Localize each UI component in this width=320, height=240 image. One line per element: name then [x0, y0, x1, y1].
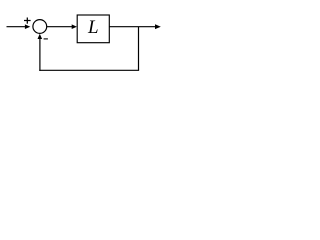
output arrowhead	[155, 24, 161, 29]
wire: input line into summing junction	[7, 26, 26, 28]
plus sign label	[24, 18, 31, 24]
svg-text:L: L	[87, 17, 99, 38]
wire: feedback bottom horizontal	[39, 69, 139, 71]
arrowhead up into summing junction bottom	[38, 34, 43, 39]
minus sign label	[44, 38, 48, 40]
wire: takeoff vertical down	[138, 27, 140, 71]
wire: feedback left vertical up to summing junction	[39, 39, 41, 71]
wire: block L to output arrow	[109, 26, 155, 28]
background	[0, 0, 178, 87]
arrowhead into summing junction	[25, 24, 30, 29]
summing junction circle	[33, 20, 47, 34]
block L rectangle	[77, 15, 109, 43]
wire: summing junction to block L	[47, 26, 73, 28]
arrowhead into block L	[72, 24, 77, 29]
